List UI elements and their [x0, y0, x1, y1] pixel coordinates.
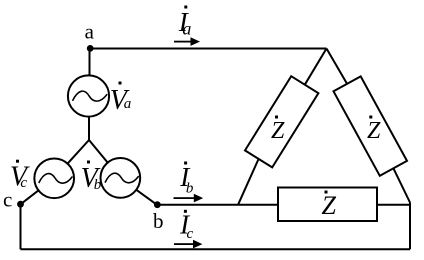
- svg-text:a: a: [85, 19, 95, 43]
- wire: neutral point to source Vc: [68, 140, 89, 164]
- svg-text:c: c: [187, 226, 194, 242]
- wire: top line from node a to delta apex: [90, 48, 327, 50]
- phasor dot of Vc: [16, 160, 19, 163]
- svg-text:b: b: [153, 209, 164, 233]
- impedance Z right (rotated rectangle): [334, 76, 408, 175]
- wire: source Vc to node c: [21, 190, 39, 204]
- wire: source Vb to node b: [136, 190, 157, 205]
- phasor dot of Z left: [275, 116, 278, 119]
- wire: left impedance bottom to delta bottom-left vertex: [238, 159, 259, 205]
- phasor dot of Va: [119, 82, 122, 85]
- node b junction dot: [154, 201, 161, 208]
- impedance Z left (rotated rectangle): [245, 76, 318, 167]
- source Vc sine wave: [39, 174, 73, 184]
- node c junction dot: [17, 201, 24, 208]
- wire: neutral point to source Vb: [89, 140, 108, 163]
- wire: left vertical from node c down to bottom line: [20, 204, 22, 249]
- phasor dot of Z bottom: [325, 191, 328, 194]
- current Ib arrow: [174, 197, 195, 199]
- svg-text:Z: Z: [367, 118, 381, 144]
- svg-text:b: b: [94, 177, 102, 193]
- wire: right vertical segment of return path: [409, 203, 411, 250]
- source Va circle: [68, 75, 109, 116]
- source Va sine wave: [73, 91, 108, 101]
- wire: bottom line from node c loop: [21, 248, 411, 250]
- source Vb sine wave: [105, 173, 139, 183]
- wire: middle line from node b to bottom impedance (through bottom-left vertex): [157, 204, 278, 206]
- svg-text:a: a: [124, 96, 132, 112]
- wire: bottom impedance right side to bottom-right vertex: [377, 204, 410, 206]
- node a junction dot: [87, 45, 94, 52]
- svg-text:b: b: [186, 181, 194, 197]
- phasor dot of Ia: [184, 6, 187, 9]
- svg-text:Z: Z: [322, 191, 337, 220]
- wire: node a down to source Va: [89, 49, 91, 76]
- wire: delta apex to left impedance top: [305, 49, 327, 85]
- wire: right impedance bottom to delta bottom-right vertex: [393, 168, 410, 202]
- wire: source Va bottom to neutral point: [88, 117, 90, 140]
- current Ic arrow: [174, 243, 194, 245]
- phasor dot of Ib: [184, 162, 187, 165]
- phasor dot of Vb: [87, 161, 90, 164]
- impedance Z bottom (rectangle): [278, 188, 377, 222]
- phasor dot of Z right: [369, 116, 372, 119]
- current Ia arrow: [174, 41, 192, 43]
- phasor dot of Ic: [184, 210, 187, 213]
- svg-text:a: a: [182, 19, 191, 39]
- source Vb circle: [101, 158, 141, 198]
- svg-text:c: c: [20, 175, 27, 191]
- wire: delta apex to right impedance top: [327, 49, 348, 84]
- svg-text:Z: Z: [271, 118, 285, 144]
- source Vc circle: [34, 158, 74, 198]
